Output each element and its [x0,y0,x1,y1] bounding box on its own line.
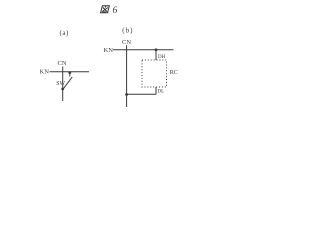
node junction on KN (b) [155,48,158,51]
wire CN vertical (b) [126,45,128,107]
wire KN horizontal (a) [50,71,90,73]
wire CN vertical (a) [62,67,64,102]
svg-text:SW: SW [56,81,65,87]
wire bottom horizontal to CN [127,93,156,95]
svg-text:KN: KN [40,69,50,76]
svg-text:DH: DH [158,55,166,60]
node on CN line (a) [61,88,64,91]
title 図6 [101,6,110,13]
node junction on CN (b) [125,93,128,96]
svg-text:RC: RC [170,70,178,76]
svg-text:CN: CN [122,39,131,46]
wire stub into box top [155,50,157,60]
wire stub from box bottom [155,87,157,94]
svg-text:CN: CN [58,60,67,67]
wire KN horizontal (b) [113,49,174,51]
block RC dashed box [142,60,167,87]
wire stub from KN node down (a) [69,72,71,77]
node junction on KN (a) [68,71,71,74]
svg-text:(b): (b) [122,27,133,35]
svg-text:(a): (a) [60,29,69,37]
svg-text:6: 6 [113,6,118,16]
switch SW blade [63,77,72,89]
svg-text:DL: DL [158,90,165,95]
svg-text:KN: KN [104,47,114,54]
